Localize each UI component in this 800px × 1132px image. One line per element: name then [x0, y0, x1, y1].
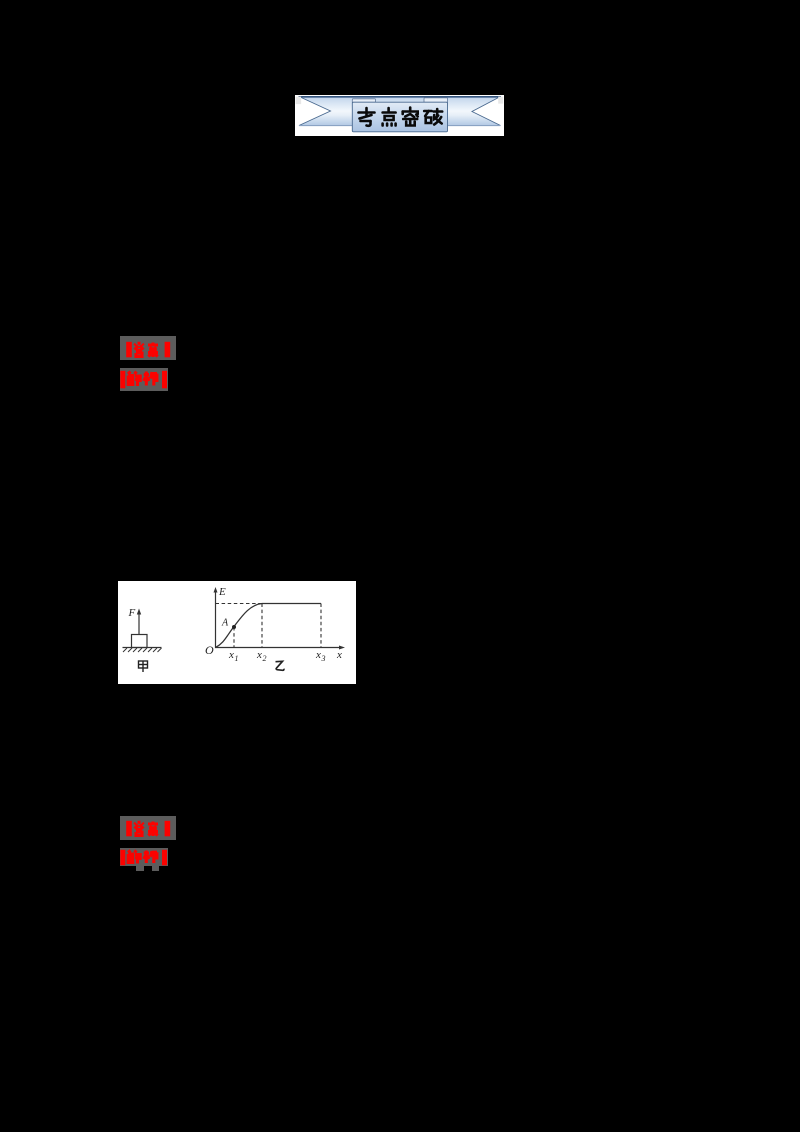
ground — [123, 647, 162, 649]
jia 甲 — [139, 661, 148, 672]
labels latin — [128, 586, 343, 663]
svg-text:x: x — [315, 649, 321, 661]
svg-text:3: 3 — [321, 654, 326, 663]
dashed vertical x1 — [233, 627, 235, 648]
dashed plateau from axis to x2 — [216, 603, 263, 605]
svg-text:x: x — [228, 649, 234, 661]
svg-text:A: A — [221, 618, 229, 629]
left: force arrow — [138, 613, 140, 635]
yi 乙 — [276, 661, 284, 670]
svg-text:O: O — [205, 643, 214, 657]
figure box — [118, 581, 356, 684]
graph axes — [216, 591, 342, 648]
red label 3: da'an 答案 — [120, 816, 176, 840]
red label 2: jiexi 解析 — [120, 368, 168, 391]
svg-text:2: 2 — [263, 654, 267, 663]
red label 4: jiexi 解析 — [120, 848, 168, 866]
ribbon band with swallow-tail ends — [299, 97, 502, 126]
svg-text:x: x — [336, 649, 342, 661]
gray descender tabs — [136, 866, 144, 871]
point A — [232, 625, 236, 629]
dian 点 — [383, 108, 396, 126]
panel curl right — [424, 98, 448, 103]
svg-text:1: 1 — [235, 654, 239, 663]
svg-text:E: E — [218, 586, 226, 598]
po 破 — [424, 109, 442, 125]
kao 考 — [359, 108, 375, 126]
hatches — [123, 648, 162, 652]
curve — [216, 604, 322, 648]
banner: ribbon with panel — [295, 95, 504, 136]
svg-text:F: F — [128, 607, 136, 619]
dashed vertical x2 — [261, 604, 263, 648]
dashed vertical x3 — [320, 604, 322, 648]
panel body — [352, 102, 447, 132]
block — [132, 635, 148, 648]
gray corner patches — [296, 97, 302, 105]
panel curl left — [352, 99, 375, 103]
red label 1: da'an 答案 — [120, 336, 176, 360]
mi 密 — [403, 108, 418, 126]
svg-text:x: x — [256, 649, 262, 661]
glyphs 考点密破 — [359, 108, 443, 126]
